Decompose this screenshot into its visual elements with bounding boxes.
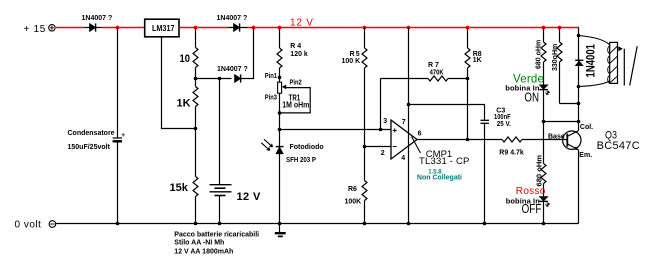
junction node 330 joins xyxy=(577,102,581,106)
svg-text:Em.: Em. xyxy=(579,152,592,159)
relay contact blade xyxy=(630,46,638,85)
diode D3 1N4007 symbol at y78.5 xyxy=(235,74,241,82)
junction node at x117 (capacitor branch) xyxy=(116,26,120,30)
resistor R8 1K body xyxy=(465,28,470,140)
svg-text:R6: R6 xyxy=(348,186,357,193)
svg-text:12 V AA 1800mAh: 12 V AA 1800mAh xyxy=(174,249,233,256)
junction node R8 top xyxy=(466,26,470,30)
wire battery top lead x219.5 xyxy=(219,79,221,185)
svg-text:R5: R5 xyxy=(350,51,361,58)
junction node R4 top xyxy=(278,26,282,30)
wire TR1 wiper loop box xyxy=(280,88,311,113)
svg-text:Col.: Col. xyxy=(580,124,593,131)
svg-text:Pin1: Pin1 xyxy=(265,73,277,80)
svg-text:25 V.: 25 V. xyxy=(497,121,511,128)
junction node Pin1 of TR1 xyxy=(278,76,282,80)
resistor R6 100K body xyxy=(362,147,367,224)
junction node +input wire tap xyxy=(278,128,282,132)
wire coil top curve xyxy=(579,36,610,45)
junction node coil bottom xyxy=(577,85,581,89)
ground symbol xyxy=(275,233,286,236)
junction node 10ohm bottom / 1K top xyxy=(194,77,198,81)
junction node 15k bottom xyxy=(194,222,198,226)
svg-text:Stilo AA -NI Mh: Stilo AA -NI Mh xyxy=(174,239,224,246)
junction node -input xyxy=(363,145,367,149)
svg-text:1K: 1K xyxy=(177,98,191,110)
LED Rosso symbol xyxy=(539,197,549,207)
photodiode PD1 symbol xyxy=(276,147,284,154)
wire C3 branch horizontal and down xyxy=(409,105,485,121)
svg-text:LM317: LM317 xyxy=(152,24,175,33)
wire red rail segment D1 to LM317 xyxy=(102,27,145,29)
svg-text:Condensatore: Condensatore xyxy=(68,130,115,137)
junction node photodiode/ground xyxy=(278,222,282,226)
wire emitter to ground rail xyxy=(578,150,580,224)
svg-text:150uF/25volt: 150uF/25volt xyxy=(68,144,111,151)
resistor R7 470K body horizontal xyxy=(381,76,468,81)
svg-text:BC547C: BC547C xyxy=(597,140,640,152)
svg-text:1N4007 ?: 1N4007 ? xyxy=(82,15,113,22)
diode D4 1N4001 symbol xyxy=(575,60,583,65)
svg-text:100K: 100K xyxy=(345,199,362,206)
wire red rail to diode D2 xyxy=(196,27,229,29)
resistor 680 ohm (green) body xyxy=(541,28,546,85)
svg-text:2: 2 xyxy=(381,150,385,157)
junction node wiper/bottom xyxy=(278,111,282,115)
svg-text:4: 4 xyxy=(401,155,405,162)
junction node R7 left / +input xyxy=(379,128,383,132)
svg-text:3: 3 xyxy=(383,118,387,125)
svg-text:ON: ON xyxy=(524,91,539,105)
svg-text:1N4007 ?: 1N4007 ? xyxy=(217,15,248,22)
junction node R5 top xyxy=(363,26,367,30)
photodiode light arrow 1 xyxy=(264,139,273,147)
junction node coil top xyxy=(577,34,581,38)
junction node battery top xyxy=(218,77,222,81)
junction node R6 bottom xyxy=(363,222,367,226)
wire LED rosso to ground rail xyxy=(543,201,545,223)
resistor 680 ohm (red) body xyxy=(541,164,546,197)
wire photodiode to ground xyxy=(279,154,281,233)
trimmer TR1 body xyxy=(278,82,287,93)
wire coil bottom curve xyxy=(579,81,610,87)
svg-text:470K: 470K xyxy=(430,69,444,76)
node +15V input terminal xyxy=(49,25,55,31)
junction node supply bottom xyxy=(407,222,411,226)
diode D2 1N4007 leads xyxy=(229,27,248,29)
junction node C3 branch tap xyxy=(407,103,411,107)
wire capacitor branch vertical x117 xyxy=(117,28,119,139)
LED Verde symbol xyxy=(539,85,549,95)
node 0 volt terminal xyxy=(49,221,56,228)
wire comparator output to base xyxy=(417,139,502,141)
relay coil K1 body xyxy=(608,42,618,83)
svg-text:1M oHm: 1M oHm xyxy=(282,100,309,110)
junction node LM317 output xyxy=(194,26,198,30)
junction node battery bottom xyxy=(218,222,222,226)
svg-text:1K: 1K xyxy=(473,57,482,64)
svg-text:15k: 15k xyxy=(170,182,189,194)
svg-text:12 V: 12 V xyxy=(237,191,261,203)
resistor 1K body xyxy=(193,79,198,129)
resistor 15k body xyxy=(193,129,198,224)
relay contact fixed xyxy=(623,49,625,86)
diode D1 1N4007 leads xyxy=(85,27,102,29)
pointer line to CMP1 label xyxy=(412,137,421,154)
svg-text:Fotodiodo: Fotodiodo xyxy=(290,144,324,151)
junction node cap bottom xyxy=(116,222,120,226)
svg-text:OFF: OFF xyxy=(522,202,542,216)
wire red rail segment terminal to diode D1 xyxy=(55,27,86,29)
svg-text:R9 4.7k: R9 4.7k xyxy=(499,150,524,157)
junction node output/R8 xyxy=(466,138,470,142)
transistor Q3 BC547C symbol xyxy=(563,131,581,151)
wire battery bottom lead xyxy=(219,196,221,224)
wire LM317 ADJ pin down and right xyxy=(162,37,196,129)
junction node LED rosso bottom xyxy=(542,222,546,226)
junction node D2/D3 cathode xyxy=(252,26,256,30)
wire TR1 bottom to photodiode xyxy=(279,93,281,146)
svg-text:7: 7 xyxy=(402,119,406,126)
svg-text:Rosso: Rosso xyxy=(516,186,546,197)
svg-text:120 k: 120 k xyxy=(290,51,308,58)
wire +input horizontal from trimmer xyxy=(280,129,392,131)
svg-text:+ 15: + 15 xyxy=(24,24,47,35)
resistor 330 ohm body xyxy=(557,28,562,104)
wire LED verde to junction y121 xyxy=(543,90,545,164)
wire R7 left vertical x380.5 xyxy=(380,79,382,130)
svg-text:1N4007 ?: 1N4007 ? xyxy=(217,66,248,73)
wire D3 cathode to vertical x253.5 xyxy=(241,28,254,79)
junction node C3 bottom xyxy=(483,222,487,226)
svg-text:330oHm: 330oHm xyxy=(552,44,559,71)
wire ground rail xyxy=(56,223,579,225)
junction node supply line top xyxy=(407,26,411,30)
svg-text:10: 10 xyxy=(180,53,191,65)
wire capacitor to ground rail xyxy=(117,143,119,224)
wire -input from R5/R6 node xyxy=(365,146,392,148)
svg-text:Base: Base xyxy=(548,134,565,141)
wire op-amp supply vertical x408.5 xyxy=(408,28,410,224)
wire C3 bottom to ground rail xyxy=(484,123,486,223)
svg-text:R 7: R 7 xyxy=(428,62,439,69)
svg-text:12 V: 12 V xyxy=(290,17,314,28)
junction node 330ohm branch top xyxy=(558,26,562,30)
wire R9 to base bar xyxy=(522,139,567,141)
wire junction to collector vertical xyxy=(544,121,579,123)
photodiode light arrow 2 xyxy=(261,143,270,151)
svg-text:R 4: R 4 xyxy=(290,43,301,50)
diode D2 1N4007 symbol xyxy=(234,23,240,31)
svg-text:6: 6 xyxy=(418,131,422,138)
svg-text:Pin2: Pin2 xyxy=(290,80,302,87)
regulator U2 LM317 box xyxy=(145,19,179,37)
resistor R9 4.7k body horizontal xyxy=(502,137,522,142)
wire red LM317 output to node xyxy=(179,27,196,29)
wire battery node horizontal y78.5 xyxy=(196,78,232,80)
svg-text:680 oHm: 680 oHm xyxy=(537,155,544,187)
resistor R4 120k body xyxy=(277,28,282,83)
svg-text:680 oHm: 680 oHm xyxy=(536,40,543,69)
svg-text:+: + xyxy=(121,132,125,139)
svg-text:Pin3: Pin3 xyxy=(265,95,277,102)
capacitor C3 symbol xyxy=(481,120,490,123)
svg-text:Pacco batterie ricaricabili: Pacco batterie ricaricabili xyxy=(174,232,259,239)
wire relay branch vertical x578 xyxy=(578,28,580,131)
capacitor C1 electrolytic 150uF symbol xyxy=(113,132,126,142)
resistor 10 ohm body xyxy=(193,28,198,79)
junction node collector xyxy=(577,120,581,124)
battery B1 12V symbol xyxy=(210,185,232,196)
wire 330ohm bottom to relay line xyxy=(560,103,579,105)
junction node green LED branch top xyxy=(542,26,546,30)
svg-text:TL331 - CP: TL331 - CP xyxy=(419,156,470,167)
junction node ADJ / 1K / 15k xyxy=(194,127,198,131)
junction node green/red branch to collector xyxy=(542,120,546,124)
svg-text:Non Collegati: Non Collegati xyxy=(417,175,462,182)
op-amp U1 triangle xyxy=(391,120,417,159)
wire red rail D2 to 12V section xyxy=(248,27,580,29)
diode D1 1N4007 symbol xyxy=(90,23,96,31)
svg-text:0 volt: 0 volt xyxy=(15,220,42,231)
svg-text:1N4001: 1N4001 xyxy=(583,44,597,78)
svg-text:100 K: 100 K xyxy=(342,58,361,65)
svg-text:SFH 203 P: SFH 203 P xyxy=(286,157,316,164)
junction node R7/R8 xyxy=(466,77,470,81)
resistor R5 100K body xyxy=(362,28,367,147)
relay actuator arrow xyxy=(618,46,623,51)
